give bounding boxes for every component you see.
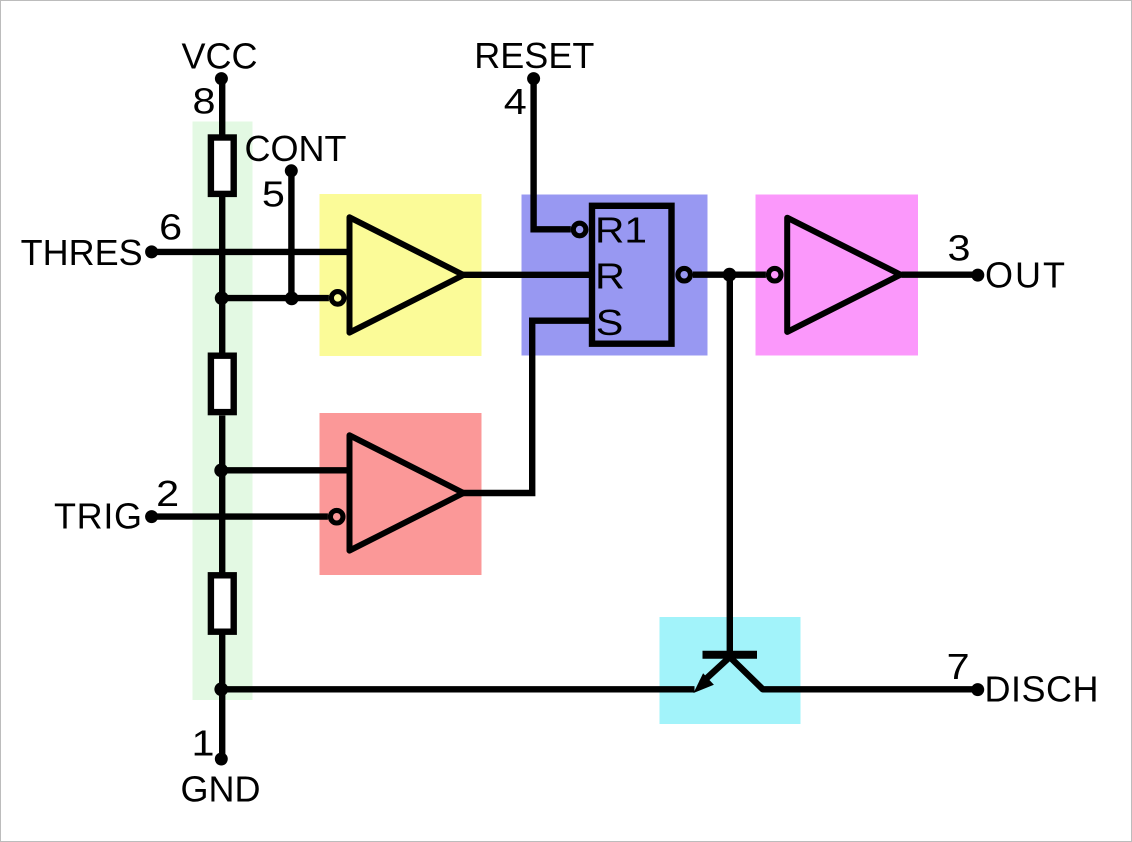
svg-text:6: 6 xyxy=(159,206,182,247)
svg-text:S: S xyxy=(596,302,624,343)
svg-text:3: 3 xyxy=(948,228,971,269)
svg-text:DISCH: DISCH xyxy=(985,669,1099,710)
svg-text:CONT: CONT xyxy=(245,128,347,169)
svg-text:R: R xyxy=(595,256,625,297)
svg-text:8: 8 xyxy=(193,81,216,122)
svg-text:7: 7 xyxy=(947,646,970,687)
svg-text:1: 1 xyxy=(192,723,215,764)
svg-text:RESET: RESET xyxy=(474,35,594,76)
svg-text:4: 4 xyxy=(504,81,527,122)
svg-text:5: 5 xyxy=(262,173,285,214)
svg-text:THRES: THRES xyxy=(21,232,143,273)
svg-text:VCC: VCC xyxy=(182,36,258,77)
svg-text:GND: GND xyxy=(181,769,261,810)
svg-text:TRIG: TRIG xyxy=(54,496,142,537)
svg-text:R1: R1 xyxy=(595,210,647,251)
svg-text:2: 2 xyxy=(156,473,179,514)
svg-text:OUT: OUT xyxy=(985,255,1065,296)
